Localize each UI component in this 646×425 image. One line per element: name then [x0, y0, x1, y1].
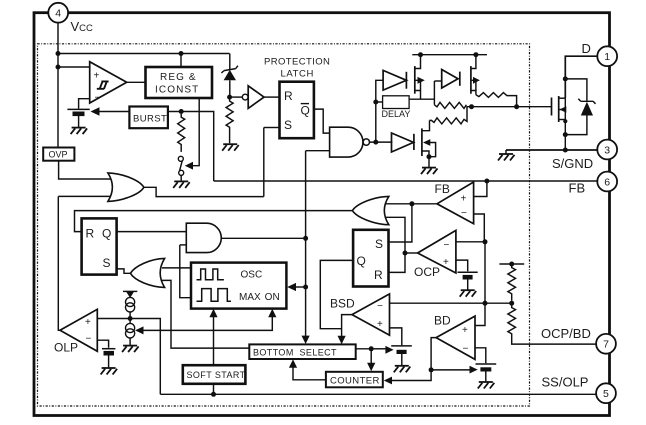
svg-text:DELAY: DELAY: [382, 109, 411, 119]
svg-text:SS/OLP: SS/OLP: [542, 375, 589, 390]
svg-text:+: +: [377, 319, 383, 330]
svg-text:OCP: OCP: [414, 265, 440, 279]
svg-text:+: +: [94, 71, 100, 82]
svg-text:D: D: [582, 41, 591, 56]
svg-text:REG &: REG &: [160, 72, 197, 83]
svg-text:+: +: [462, 325, 468, 336]
svg-text:PROTECTION: PROTECTION: [264, 57, 330, 68]
svg-text:1: 1: [604, 51, 610, 63]
svg-text:BURST: BURST: [133, 114, 167, 125]
svg-text:+: +: [443, 257, 449, 268]
svg-text:S: S: [103, 256, 111, 270]
svg-text:BD: BD: [434, 314, 451, 328]
svg-text:−: −: [444, 240, 450, 251]
svg-text:+: +: [461, 194, 467, 205]
svg-text:6: 6: [604, 176, 610, 188]
svg-text:COUNTER: COUNTER: [330, 376, 380, 387]
svg-text:S: S: [375, 237, 383, 251]
svg-text:Q: Q: [357, 254, 366, 268]
svg-text:OLP: OLP: [54, 341, 78, 355]
svg-text:Q: Q: [301, 104, 310, 118]
svg-text:4: 4: [55, 8, 61, 20]
svg-text:ICONST: ICONST: [155, 84, 199, 95]
svg-text:BOTTOM SELECT: BOTTOM SELECT: [253, 347, 337, 357]
svg-text:S: S: [284, 118, 292, 132]
svg-text:−: −: [461, 208, 467, 219]
svg-text:OCP/BD: OCP/BD: [541, 326, 591, 341]
svg-text:S/GND: S/GND: [552, 156, 593, 171]
svg-text:7: 7: [603, 339, 609, 351]
svg-text:−: −: [463, 344, 469, 355]
svg-text:5: 5: [603, 388, 609, 400]
svg-text:3: 3: [604, 144, 610, 156]
svg-text:OVP: OVP: [49, 150, 68, 160]
svg-text:−: −: [86, 334, 92, 345]
svg-text:−: −: [95, 93, 101, 104]
svg-text:R: R: [86, 227, 95, 241]
svg-text:LATCH: LATCH: [281, 69, 314, 80]
svg-text:−: −: [377, 301, 383, 312]
svg-text:R: R: [284, 89, 293, 103]
svg-text:OSC: OSC: [241, 270, 263, 281]
svg-text:BSD: BSD: [330, 297, 355, 311]
svg-text:FB: FB: [569, 181, 586, 196]
svg-text:+: +: [85, 317, 91, 328]
svg-text:SOFT START: SOFT START: [187, 370, 246, 380]
svg-text:Q: Q: [102, 227, 111, 241]
svg-text:VCC: VCC: [71, 19, 94, 34]
svg-text:FB: FB: [435, 182, 450, 196]
svg-text:MAX ON: MAX ON: [239, 292, 280, 303]
svg-text:R: R: [374, 268, 383, 282]
